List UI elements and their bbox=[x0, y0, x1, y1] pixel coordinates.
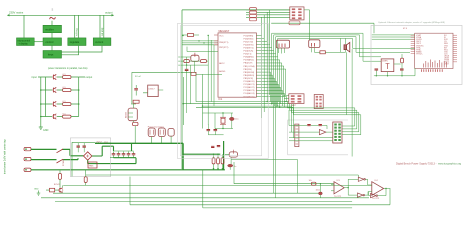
gate buffer G3 bbox=[371, 194, 378, 198]
wire rail to fuse to rectifier bbox=[51, 21, 53, 26]
wire row links bbox=[41, 90, 52, 117]
wire bus F bbox=[203, 207, 352, 209]
ENC bottom pin dashes bbox=[422, 69, 443, 72]
resistor R13 bbox=[212, 154, 215, 169]
connector X1-2 bbox=[24, 157, 31, 160]
wire R21 bbox=[348, 188, 368, 195]
svg-text:IC1: IC1 bbox=[219, 98, 223, 101]
diode D2 bbox=[182, 34, 199, 37]
resistor R24 bbox=[57, 74, 79, 79]
svg-text:rectifier: rectifier bbox=[45, 27, 54, 31]
svg-text:GND: GND bbox=[43, 129, 49, 132]
svg-text:out amp: out amp bbox=[101, 27, 104, 36]
switch S1a bbox=[57, 149, 64, 153]
svg-text:GND: GND bbox=[34, 189, 39, 191]
wire cluster bbox=[178, 35, 222, 125]
wire JP3 riser bbox=[304, 10, 310, 40]
gate buffer G2 bbox=[358, 193, 365, 197]
speaker SP1 bbox=[344, 42, 350, 52]
trimmer R20 bbox=[191, 53, 199, 62]
IC regulator 7805 bbox=[88, 162, 97, 168]
resistor below BD245 bbox=[128, 113, 138, 126]
wire bridge out plus bbox=[92, 146, 114, 156]
capacitor C lm bbox=[134, 89, 138, 90]
wire ladder right bus bbox=[79, 77, 85, 117]
wire resistor stack feeds bbox=[246, 10, 290, 17]
op-amp IC3B bbox=[368, 180, 390, 200]
resistor R25 bbox=[57, 87, 79, 92]
svg-text:PD6(AIN0): PD6(AIN0) bbox=[244, 56, 254, 59]
crystal Q1 bbox=[220, 113, 226, 129]
wire ladder left bus bbox=[38, 77, 52, 124]
wire ENC right pin stubs bbox=[453, 35, 457, 62]
wire thick center tap long bbox=[31, 169, 225, 171]
wire keys to box5 bbox=[62, 46, 102, 52]
wire opamp input bbox=[234, 183, 334, 185]
svg-text:PD7(AIN1): PD7(AIN1) bbox=[244, 59, 254, 62]
pot R16 bbox=[225, 150, 238, 157]
resistor right bbox=[201, 60, 207, 63]
svg-text:PC5(ADC5): PC5(ADC5) bbox=[244, 95, 255, 98]
svg-text:PC3(ADC3): PC3(ADC3) bbox=[244, 89, 255, 92]
capacitor C5 bbox=[132, 152, 136, 158]
wire bus A bbox=[63, 184, 372, 186]
wire bundle verticals from top bbox=[262, 10, 270, 45]
wire rectifier to control bbox=[51, 33, 53, 38]
svg-text:PB5(SCK): PB5(SCK) bbox=[244, 78, 254, 80]
connector X1-1 bbox=[24, 147, 31, 150]
wire eth bottom links bbox=[374, 64, 415, 77]
wire xtal links bbox=[203, 112, 234, 129]
svg-text:TLC272: TLC272 bbox=[334, 196, 342, 198]
svg-text:PD1(TXD): PD1(TXD) bbox=[244, 41, 254, 43]
resistor R26 bbox=[57, 101, 79, 106]
svg-text:PB7(XT2): PB7(XT2) bbox=[219, 47, 228, 49]
ground symbol bottom-left bbox=[37, 191, 41, 196]
capacitor lcd a bbox=[307, 125, 310, 126]
wire keys to box4 bbox=[62, 46, 79, 55]
svg-text:UART: UART bbox=[291, 104, 297, 107]
svg-text:PB3(MOSI): PB3(MOSI) bbox=[244, 72, 255, 74]
wire bus y103.7 bbox=[183, 103, 289, 105]
wire vertical x202.5 bbox=[202, 74, 204, 128]
block microcontroller bbox=[17, 38, 35, 46]
resistor R18 bbox=[309, 180, 317, 185]
svg-text:Digital Bench Power Supply ©20: Digital Bench Power Supply ©2013 - bbox=[396, 163, 437, 166]
svg-text:input: input bbox=[32, 76, 38, 79]
wire eth feeds bbox=[347, 33, 415, 156]
frame ethernet box bbox=[371, 25, 462, 84]
LED LED1 bbox=[46, 188, 59, 192]
svg-text:PC4(ADC4): PC4(ADC4) bbox=[244, 92, 255, 95]
wire MCU bundle verticals down bbox=[262, 36, 287, 198]
wire speaker riser bbox=[340, 38, 345, 52]
frame main A bbox=[180, 26, 261, 156]
svg-text:PD2(INT0): PD2(INT0) bbox=[244, 44, 254, 46]
frame REG-5V box bbox=[70, 138, 110, 177]
header JP3 bbox=[309, 40, 320, 53]
capacitor C6 elco bbox=[229, 113, 238, 129]
wire lcd loops bbox=[287, 102, 360, 141]
wire main V rail bbox=[181, 10, 183, 169]
capacitor C4 bbox=[127, 152, 131, 158]
wire bus B bbox=[53, 192, 320, 194]
capacitor C2 bbox=[117, 152, 121, 158]
wire R19 feedback bbox=[348, 179, 367, 187]
svg-text:PB4(MISO): PB4(MISO) bbox=[244, 75, 255, 77]
IC IC1 Mega8 bbox=[218, 33, 256, 101]
transistor T6 bbox=[53, 87, 57, 92]
svg-text:Optional: Ethernet network ada: Optional: Ethernet network adapter, need… bbox=[378, 21, 445, 24]
wire pair rail to box4 bbox=[75, 15, 79, 38]
wire pair rail to box5 bbox=[100, 15, 104, 38]
wire pot out bbox=[230, 157, 297, 193]
fuse F1 bbox=[49, 16, 56, 21]
diode D1 bbox=[133, 100, 139, 103]
svg-text:www.tuxgraphics.org: www.tuxgraphics.org bbox=[438, 163, 462, 166]
svg-text:PC6(RES): PC6(RES) bbox=[244, 35, 254, 37]
capacitor cluster lower bbox=[207, 124, 224, 135]
svg-text:TLC272: TLC272 bbox=[372, 198, 380, 200]
wire bus y101.6 bbox=[196, 101, 287, 103]
svg-text:AGND: AGND bbox=[219, 70, 226, 73]
transistor T8 bbox=[53, 114, 57, 119]
svg-text:transformer 2x9V with center t: transformer 2x9V with center tap bbox=[4, 139, 7, 174]
wire thick adc vertical bbox=[223, 141, 225, 170]
svg-text:VCC: VCC bbox=[219, 35, 224, 37]
wire cap bus bottom bbox=[110, 157, 136, 159]
svg-text:BC547: BC547 bbox=[54, 184, 60, 186]
transistor T1 bbox=[59, 185, 63, 193]
svg-text:PD3(INT1): PD3(INT1) bbox=[244, 48, 254, 50]
frame main B bbox=[178, 23, 269, 158]
resistor R27 bbox=[57, 113, 79, 118]
resistor R14 bbox=[217, 154, 220, 169]
resistor eth right bbox=[401, 54, 404, 69]
header SV1 bbox=[284, 94, 304, 107]
wire IC left inputs bbox=[182, 35, 218, 45]
diode bridge B1 bbox=[84, 152, 92, 160]
svg-text:5V uC: 5V uC bbox=[135, 76, 141, 78]
svg-text:PB6(XT1): PB6(XT1) bbox=[219, 42, 228, 44]
svg-text:output: output bbox=[86, 76, 93, 79]
wire bridge out minus bbox=[88, 158, 136, 164]
ground bbox=[39, 124, 43, 130]
IC ENC28J60 bbox=[415, 33, 453, 68]
wire long y23 bbox=[271, 23, 374, 33]
frame display C bbox=[288, 120, 348, 155]
wire microcontroller to control bbox=[34, 41, 43, 43]
svg-text:TPOUT-: TPOUT- bbox=[416, 53, 423, 55]
wire vertical x183 bbox=[182, 77, 184, 125]
capacitor C9 elco bbox=[316, 184, 323, 198]
svg-text:1u: 1u bbox=[234, 166, 236, 168]
wire adc to input bbox=[233, 162, 235, 184]
wire control to keys bbox=[51, 46, 53, 51]
wire thick AC1 bbox=[31, 149, 83, 155]
block control bbox=[43, 38, 62, 46]
wire bundle tops to ethernet bbox=[272, 33, 363, 57]
resistor R0 on y23 bbox=[289, 21, 300, 25]
resistor R below reg bbox=[59, 171, 62, 188]
transistor T4 bbox=[158, 128, 165, 137]
resistor R23 bbox=[84, 170, 87, 186]
capacitor reg inner b bbox=[83, 146, 86, 147]
wire cap bus top bbox=[114, 150, 134, 152]
capacitor eth left bbox=[375, 69, 379, 70]
svg-text:volt reg: volt reg bbox=[76, 28, 79, 36]
header JP4 bbox=[314, 95, 323, 109]
resistor stack RN bbox=[249, 8, 256, 21]
capacitor lcd b bbox=[319, 125, 322, 126]
svg-text:10k: 10k bbox=[309, 180, 312, 182]
wire bus E bbox=[130, 204, 390, 206]
block output bbox=[93, 38, 111, 46]
svg-text:10u: 10u bbox=[235, 119, 238, 121]
wire MCU right pin stubs + staircase bundle bbox=[257, 36, 287, 97]
wire thick to reg caps bbox=[114, 143, 136, 157]
wire thick AC2 bbox=[31, 158, 78, 159]
diode mid bbox=[191, 72, 196, 75]
buffer gate bbox=[319, 130, 326, 135]
transistor T2 BD245 bbox=[126, 108, 138, 121]
wire bus D bbox=[55, 200, 352, 202]
svg-text:+ display: + display bbox=[19, 43, 29, 45]
svg-text:control: control bbox=[46, 40, 54, 44]
svg-text:230V mains: 230V mains bbox=[9, 11, 24, 15]
svg-text:PC1(ADC1): PC1(ADC1) bbox=[244, 83, 255, 86]
svg-text:PD5(T1): PD5(T1) bbox=[244, 54, 252, 56]
wire ENC left pin stubs bbox=[411, 35, 415, 53]
svg-text:current: current bbox=[95, 40, 103, 44]
wire reg inner bbox=[78, 143, 84, 152]
wire bus y107.3 bbox=[196, 106, 293, 108]
svg-text:BD245: BD245 bbox=[126, 111, 128, 118]
svg-text:keys: keys bbox=[48, 52, 54, 56]
svg-text:7805: 7805 bbox=[89, 165, 95, 167]
transistor T7 bbox=[53, 101, 57, 106]
svg-text:PC2(ADC2): PC2(ADC2) bbox=[244, 86, 255, 89]
wire reg rail bbox=[72, 142, 95, 176]
wire top bus bbox=[182, 9, 290, 11]
junction dots opamp bbox=[320, 183, 387, 189]
junction dots bus bbox=[183, 101, 281, 108]
svg-text:100n: 100n bbox=[316, 190, 320, 192]
transistor T5 bbox=[53, 74, 57, 79]
junction dots adc bbox=[213, 153, 224, 169]
resistor left bbox=[184, 60, 190, 63]
node junction dots ladder bbox=[40, 89, 79, 117]
IC LM317 bbox=[148, 85, 159, 97]
block regulator bbox=[68, 38, 86, 46]
block rectifier bbox=[43, 25, 62, 32]
capacitor mid bbox=[185, 69, 189, 70]
wire 5V branch bbox=[132, 72, 196, 104]
connector LCD SV3 bbox=[333, 122, 342, 143]
capacitor reg inner a bbox=[77, 146, 80, 147]
svg-text:S: S bbox=[52, 8, 54, 12]
wire bus y106.1 bbox=[203, 105, 292, 107]
connector SV2 top bbox=[290, 7, 304, 20]
wire transistor drops bbox=[152, 136, 171, 143]
wire left risers bbox=[130, 170, 203, 208]
contrast network bbox=[295, 124, 299, 147]
wire rail to microcontroller box bbox=[23, 15, 25, 38]
svg-text:PB2(SS): PB2(SS) bbox=[244, 69, 252, 71]
IC quartz oscillator 25MHz bbox=[381, 59, 394, 72]
svg-text:microcontrol: microcontrol bbox=[18, 39, 31, 42]
transistor T3 bbox=[148, 128, 155, 137]
wire bd245 leads bbox=[131, 104, 136, 143]
resistor R15 bbox=[221, 154, 224, 169]
transistor T5b bbox=[168, 129, 174, 137]
diode D3 bbox=[314, 50, 345, 54]
svg-text:PB1(OC1A): PB1(OC1A) bbox=[244, 65, 255, 68]
svg-text:AVCC: AVCC bbox=[219, 62, 225, 65]
svg-text:regulate: regulate bbox=[70, 40, 80, 44]
capacitor C1 bbox=[112, 152, 116, 158]
wire lm317 leads bbox=[136, 85, 163, 96]
header JP2 bbox=[276, 40, 289, 53]
connector X1-3 bbox=[24, 168, 31, 171]
svg-text:MEGA8-P: MEGA8-P bbox=[219, 30, 230, 33]
svg-text:output: output bbox=[105, 11, 113, 15]
capacitor adc red bbox=[228, 164, 237, 168]
capacitor C3 bbox=[122, 152, 126, 158]
svg-text:power transistors in parallel,: power transistors in parallel, low drop bbox=[48, 67, 88, 70]
wire R22 feedback2 bbox=[369, 189, 387, 196]
capacitor eth right bbox=[400, 69, 404, 70]
gate buffer G1 bbox=[358, 177, 365, 181]
svg-text:LM317: LM317 bbox=[149, 89, 156, 91]
capacitor pair top bbox=[211, 146, 220, 148]
wire thick output bus bbox=[95, 143, 183, 170]
svg-text:PC0(ADC0): PC0(ADC0) bbox=[244, 80, 255, 83]
op-amp IC3A bbox=[331, 180, 348, 198]
node mains rail bbox=[8, 15, 114, 17]
svg-text:PD4(XCK): PD4(XCK) bbox=[244, 51, 254, 53]
svg-text:POWER: POWER bbox=[63, 158, 65, 166]
switch S1b bbox=[57, 159, 64, 163]
wire bus C bbox=[41, 197, 369, 199]
svg-text:PD0(RXD): PD0(RXD) bbox=[244, 38, 254, 40]
svg-text:PB0(ICP): PB0(ICP) bbox=[244, 63, 253, 65]
wire opamp2 out drop bbox=[389, 189, 391, 205]
pin bars bottom (vertical pin names) bbox=[424, 60, 447, 68]
block keys bbox=[43, 51, 62, 59]
svg-text:25MHz: 25MHz bbox=[382, 61, 388, 63]
wire y175 sense line bbox=[86, 175, 359, 178]
wire thick adc stub bbox=[183, 153, 220, 155]
